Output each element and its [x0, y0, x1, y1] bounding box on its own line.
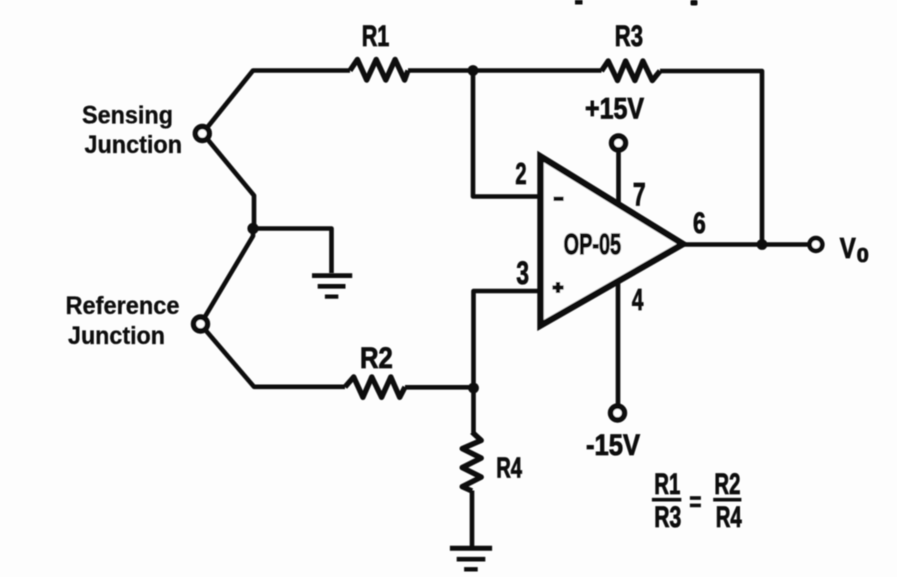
- svg-text:-15V: -15V: [586, 429, 640, 462]
- svg-text:3: 3: [516, 255, 529, 291]
- svg-text:V: V: [840, 233, 857, 265]
- svg-text:R1: R1: [362, 20, 390, 53]
- svg-text:R3: R3: [654, 501, 681, 534]
- svg-text:Reference: Reference: [66, 292, 180, 320]
- svg-text:7: 7: [633, 177, 646, 213]
- svg-text:+15V: +15V: [585, 93, 644, 126]
- svg-text:R3: R3: [615, 20, 643, 53]
- svg-text:R2: R2: [714, 468, 740, 501]
- svg-text:Junction: Junction: [68, 322, 165, 350]
- svg-text:OP-05: OP-05: [564, 229, 622, 261]
- svg-text:Sensing: Sensing: [82, 102, 173, 130]
- svg-text:2: 2: [515, 156, 526, 191]
- svg-text:6: 6: [693, 207, 706, 240]
- svg-text:R1: R1: [654, 468, 680, 501]
- svg-text:4: 4: [632, 282, 644, 317]
- svg-text:R4: R4: [716, 501, 742, 534]
- svg-text:Junction: Junction: [85, 131, 183, 159]
- svg-text:R2: R2: [360, 342, 393, 375]
- svg-text:0: 0: [857, 245, 869, 267]
- svg-text:R4: R4: [496, 453, 522, 485]
